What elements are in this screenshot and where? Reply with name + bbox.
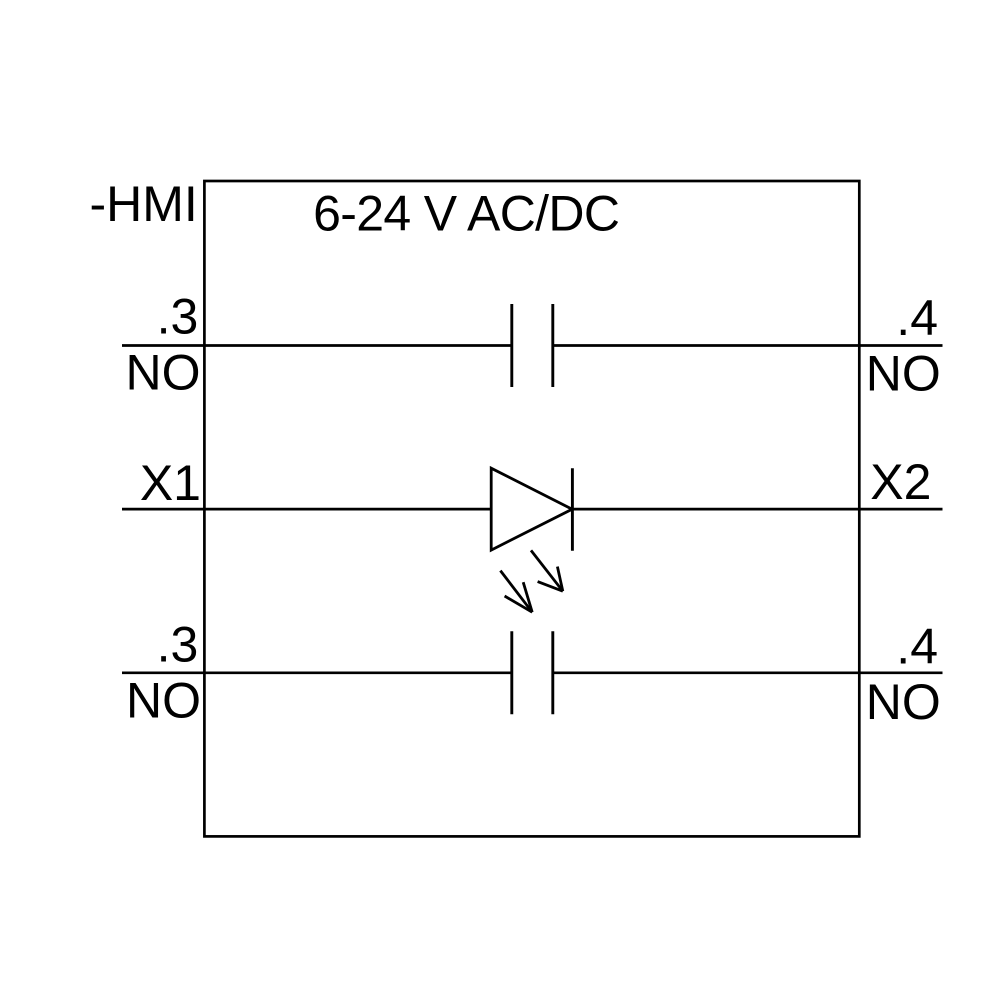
svg-text:.3: .3 — [157, 289, 199, 345]
svg-text:NO: NO — [866, 346, 941, 402]
LED light arrow 2 — [500, 571, 532, 613]
wire row1 left (.3 terminal) — [122, 344, 512, 347]
wire row2 left (X1 terminal) — [122, 508, 491, 511]
contact NO top, left bar — [510, 304, 513, 387]
wire row3 left (.3 terminal) — [122, 671, 512, 674]
svg-text:X1: X1 — [140, 455, 201, 511]
svg-text:-HMI: -HMI — [90, 176, 198, 232]
svg-text:.3: .3 — [157, 617, 199, 673]
svg-text:.4: .4 — [896, 290, 938, 346]
LED light arrow 1 — [531, 550, 563, 591]
enclosure box -HMI — [204, 181, 859, 836]
wire row3 right (.4 terminal) — [553, 671, 943, 674]
wire row2 right (X2 terminal) — [572, 508, 942, 511]
svg-text:NO: NO — [126, 673, 201, 729]
LED cathode bar — [571, 468, 574, 551]
contact NO bottom, left bar — [510, 631, 513, 714]
svg-text:NO: NO — [866, 674, 941, 730]
wire row1 right (.4 terminal) — [553, 344, 943, 347]
svg-text:X2: X2 — [870, 454, 931, 510]
contact NO bottom, right bar — [551, 631, 554, 714]
svg-text:.4: .4 — [896, 619, 938, 675]
svg-text:NO: NO — [126, 345, 201, 401]
svg-text:6-24 V AC/DC: 6-24 V AC/DC — [313, 186, 619, 242]
LED triangle (anode) — [491, 468, 572, 550]
contact NO top, right bar — [551, 304, 554, 387]
